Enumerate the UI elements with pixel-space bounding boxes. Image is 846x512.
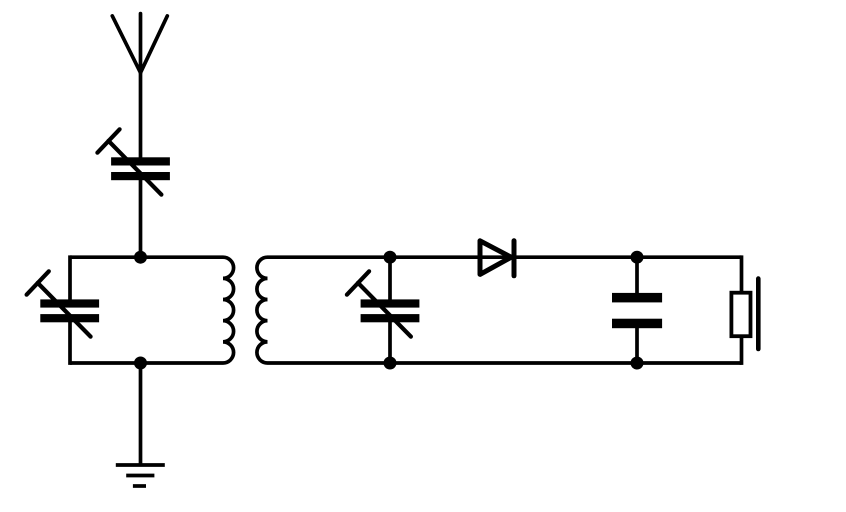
wire secondary bottom to earphone (268, 361, 742, 365)
variable capacitor C1 (antenna trimmer) (97, 129, 169, 194)
node: C4 top junction (631, 251, 644, 264)
wire C4 top lead (635, 257, 639, 293)
inductor L2 (transformer secondary) (257, 257, 268, 363)
node: C4 bottom junction (631, 357, 644, 370)
diode D1 (480, 241, 514, 276)
wire to ground (139, 363, 143, 465)
wire secondary top to earphone (268, 255, 742, 259)
wire C3 top lead (388, 257, 392, 300)
earphone (731, 255, 758, 365)
wire trimmer to tank top node (139, 180, 143, 258)
wire C3 bottom lead (388, 322, 392, 364)
antenna (112, 14, 167, 73)
variable capacitor C3 (detector tuning) (347, 271, 420, 336)
capacitor C4 (filter) (612, 293, 662, 328)
wire tank top (70, 255, 223, 259)
ground (116, 465, 165, 486)
wire antenna to trimmer (139, 73, 143, 158)
variable capacitor C2 (tuning) (27, 271, 100, 336)
inductor L1 (transformer primary) (223, 257, 234, 363)
node: tank bottom junction (134, 357, 147, 370)
node: C3 bottom junction (384, 357, 397, 370)
node: C3 top junction (384, 251, 397, 264)
wire C4 bottom lead (635, 328, 639, 363)
wire tank left leg (68, 255, 72, 365)
wire tank bottom (70, 361, 223, 365)
node: tank top junction (134, 251, 147, 264)
